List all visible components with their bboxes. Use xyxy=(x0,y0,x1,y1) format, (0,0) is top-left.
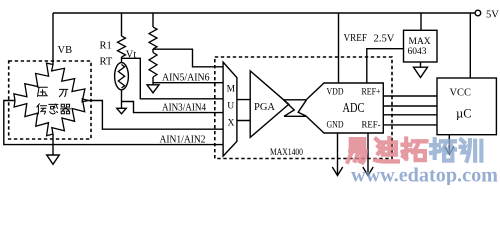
watermark char 拓 xyxy=(403,139,427,160)
watermark char 培 xyxy=(431,139,455,160)
watermark char 易 xyxy=(348,139,366,162)
arrow ground uC xyxy=(445,147,454,155)
svg-text:REF+: REF+ xyxy=(362,87,381,97)
ground below MAX6043 xyxy=(420,62,422,67)
wire MAX6043 drop from rail xyxy=(420,13,422,30)
pressure sensor bridge: arm top-left xyxy=(14,63,53,100)
arrow analog ground REF- xyxy=(363,167,373,176)
wire R1 branch drop xyxy=(121,13,123,36)
ground below RT xyxy=(117,108,126,114)
wire uC ground xyxy=(448,135,450,154)
svg-text:2.5V: 2.5V xyxy=(374,34,395,45)
op-amp PGA xyxy=(250,71,289,137)
svg-text:GND: GND xyxy=(327,121,344,131)
svg-text:VDD: VDD xyxy=(327,87,344,97)
thermistor RT (ellipse with zigzag) xyxy=(121,57,123,63)
wire VB drop to bridge top xyxy=(52,13,54,65)
svg-text:PGA: PGA xyxy=(254,102,275,113)
svg-text:REF-: REF- xyxy=(362,121,381,131)
wire top +5V supply rail xyxy=(53,12,475,14)
svg-text:X: X xyxy=(228,119,235,129)
wire divider branch drop xyxy=(152,13,154,27)
ground below bridge xyxy=(52,134,54,155)
wire serial bus ADC to uC (4 lines) xyxy=(383,96,437,125)
wire AIN1 from bridge right vertex xyxy=(89,101,224,130)
svg-text:AIN3/AIN4: AIN3/AIN4 xyxy=(162,102,207,113)
wire 5V to uC VCC xyxy=(469,13,471,78)
svg-text:VCC: VCC xyxy=(450,87,472,98)
svg-text:www.edatop.com: www.edatop.com xyxy=(351,165,498,186)
wire AIN3 from Vt node xyxy=(122,58,224,99)
voltage reference MAX6043 xyxy=(404,30,438,62)
svg-text:M: M xyxy=(227,85,236,95)
wire REF+ pin to MAX6043 xyxy=(367,49,404,83)
microcontroller uC box xyxy=(437,78,496,135)
dashed box MAX1400 xyxy=(215,57,392,159)
svg-text:MAX: MAX xyxy=(409,37,431,47)
wire REF- pin down xyxy=(367,133,369,175)
wire AIN2 from bridge left vertex xyxy=(4,101,223,145)
dashed box pressure sensor xyxy=(9,61,91,139)
bridge arm top-right xyxy=(52,65,89,102)
ground below divider xyxy=(147,85,159,93)
svg-text:ADC: ADC xyxy=(343,100,365,115)
multiplexer MUX xyxy=(223,62,237,156)
svg-text:6043: 6043 xyxy=(408,47,427,57)
wire GND pin down xyxy=(337,133,339,175)
label 压力 (pressure) xyxy=(38,87,48,96)
wire AIN5 from divider tap xyxy=(153,49,223,67)
svg-text:U: U xyxy=(227,102,234,112)
svg-text:MAX1400: MAX1400 xyxy=(270,147,303,157)
terminal +5V xyxy=(475,10,481,16)
wire VDD pin to rail xyxy=(338,13,340,83)
svg-text:VB: VB xyxy=(58,45,73,56)
svg-text:AIN5/AIN6: AIN5/AIN6 xyxy=(162,72,210,83)
wire RT bottom to ground xyxy=(121,90,123,109)
label 传感器 (sensor) xyxy=(37,104,47,114)
wire AIN6 from ground node xyxy=(153,82,223,84)
watermark char 迪 xyxy=(375,138,398,161)
wire AIN4 from RT ground node xyxy=(122,102,224,113)
arrow analog ground GND xyxy=(332,167,342,176)
svg-text:RT: RT xyxy=(100,57,113,68)
resistor divider upper xyxy=(149,27,157,49)
wire MUX to PGA (pair) xyxy=(237,100,250,121)
svg-text:R1: R1 xyxy=(100,41,112,52)
resistor divider lower xyxy=(149,53,157,78)
bridge arm bottom-right xyxy=(52,99,89,134)
svg-text:AIN1/AIN2: AIN1/AIN2 xyxy=(160,135,206,146)
bridge arm bottom-left xyxy=(14,101,53,136)
resistor R1 xyxy=(118,36,126,57)
svg-text:VREF: VREF xyxy=(344,33,368,44)
svg-text:5V: 5V xyxy=(486,10,499,21)
wire divider bottom stem xyxy=(152,77,154,85)
svg-text:µC: µC xyxy=(456,107,472,121)
watermark char 训 xyxy=(461,140,482,161)
ADC block (pentagon) xyxy=(307,83,384,133)
modulator bowtie xyxy=(284,100,307,117)
